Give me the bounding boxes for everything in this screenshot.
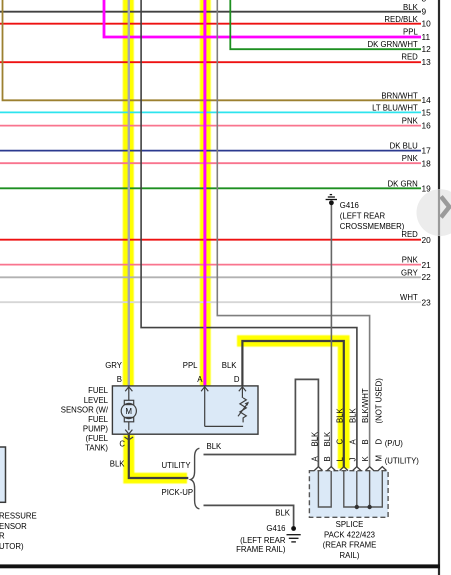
splice row2 letters rotated [335, 439, 383, 445]
highlight yellow BLK pin D path [237, 335, 350, 468]
svg-text:(FUEL: (FUEL [85, 434, 108, 443]
svg-text:PNK: PNK [402, 154, 419, 163]
label splice pack [323, 520, 377, 560]
ground G416 crossmember [326, 195, 337, 206]
label G416 frame rail [236, 524, 286, 554]
svg-text:(UTILITY): (UTILITY) [385, 457, 420, 466]
svg-text:C: C [335, 439, 344, 445]
wire 22 GRY horizontal [0, 276, 421, 278]
svg-text:BLK: BLK [310, 431, 319, 447]
wire PPL core to fuel pin A [203, 37, 206, 386]
svg-text:BLK: BLK [349, 407, 358, 423]
splice junction dots [355, 505, 359, 509]
svg-text:TANK): TANK) [85, 443, 108, 452]
wire BLK to splice J vertical from top [141, 0, 357, 467]
pressure sensor box left [0, 447, 6, 502]
svg-text:BLK: BLK [207, 442, 223, 451]
brace utility pickup [191, 448, 200, 509]
svg-text:PPL: PPL [183, 361, 198, 370]
wire BLK pin C to brace [129, 435, 189, 478]
svg-text:FRAME RAIL): FRAME RAIL) [236, 545, 286, 554]
right border [438, 0, 440, 575]
svg-text:15: 15 [422, 108, 432, 118]
svg-text:FUEL: FUEL [88, 386, 109, 395]
svg-text:RESSURE: RESSURE [0, 512, 37, 521]
wire 15 LT BLU/WHT horizontal [0, 111, 421, 113]
svg-text:D: D [234, 375, 240, 384]
right side wire numbers [422, 0, 432, 307]
wire 9 BLK horizontal [0, 11, 421, 13]
svg-text:WHT: WHT [400, 293, 418, 302]
svg-text:GRY: GRY [401, 268, 419, 277]
wire 16 PNK horizontal [0, 125, 421, 127]
wire BLK/WHT to splice K vertical from top [217, 0, 369, 467]
svg-text:8: 8 [422, 0, 427, 4]
svg-text:21: 21 [422, 260, 432, 270]
label fuel level sensor [61, 386, 109, 452]
svg-text:11: 11 [422, 32, 431, 42]
pin A internal wire [201, 387, 243, 427]
svg-text:BLK/WHT: BLK/WHT [361, 388, 370, 423]
wire 13 RED horizontal [0, 61, 421, 63]
chevron circle [417, 189, 451, 236]
svg-text:M: M [126, 407, 133, 416]
pin C arrow below box [125, 437, 134, 440]
svg-text:10: 10 [422, 19, 432, 29]
wire G416 crossmember to splice B [330, 205, 332, 467]
svg-text:SPLICE: SPLICE [336, 520, 364, 529]
fuel level sensor box [112, 386, 258, 434]
splice wire color labels rotated [310, 378, 383, 447]
svg-text:BLK: BLK [222, 361, 238, 370]
svg-text:13: 13 [422, 57, 432, 67]
splice pack box [309, 471, 388, 518]
svg-text:14: 14 [422, 95, 432, 105]
right side wire color labels [368, 3, 419, 302]
svg-text:UTOR): UTOR) [0, 542, 24, 551]
ground G416 frame rail [287, 526, 301, 542]
wire BLK pickup to ground [204, 505, 294, 527]
svg-text:PNK: PNK [402, 256, 419, 265]
svg-text:17: 17 [422, 146, 432, 156]
svg-text:UTILITY: UTILITY [162, 461, 192, 470]
svg-text:A: A [349, 439, 358, 445]
wire BLK utility to splice A [204, 379, 319, 467]
wire 21 PNK horizontal [0, 264, 421, 266]
wire 20 RED horizontal [0, 239, 421, 241]
motor M fuel pump [121, 400, 136, 434]
wire 17 DK BLU horizontal [0, 150, 421, 152]
svg-text:RED/BLK: RED/BLK [384, 15, 418, 24]
svg-text:(NOT USED): (NOT USED) [374, 378, 383, 424]
wire 19 DK GRN horizontal [0, 187, 421, 189]
svg-text:RED: RED [401, 230, 418, 239]
svg-text:16: 16 [422, 121, 432, 131]
svg-text:M: M [374, 455, 383, 462]
svg-text:FUEL: FUEL [88, 415, 109, 424]
svg-text:J: J [349, 458, 358, 462]
svg-text:BLK: BLK [275, 508, 291, 517]
svg-text:RED: RED [401, 53, 418, 62]
svg-text:BRN/WHT: BRN/WHT [381, 91, 418, 100]
svg-text:(REAR FRAME: (REAR FRAME [323, 541, 377, 550]
splice internal bus L-M [344, 471, 383, 507]
svg-text:PPL: PPL [403, 28, 418, 37]
svg-text:22: 22 [422, 272, 432, 282]
svg-text:(LEFT REAR: (LEFT REAR [240, 536, 286, 545]
svg-text:G416: G416 [266, 524, 285, 533]
svg-text:PACK 422/423: PACK 422/423 [324, 530, 375, 539]
svg-text:B: B [323, 456, 332, 461]
splice pin arrows [314, 467, 386, 471]
svg-text:A: A [310, 456, 319, 462]
svg-text:12: 12 [422, 44, 432, 54]
highlight yellow BLK pin C path [123, 435, 187, 484]
splice terminal letters rotated [310, 455, 383, 462]
svg-text:(LEFT REAR: (LEFT REAR [340, 212, 386, 221]
highlight yellow PPL wire vertical [200, 0, 211, 386]
wire 12 DK GRN/WHT vertical from top [230, 0, 421, 49]
bottom border [0, 564, 440, 568]
wire GRY core to fuel pin B [128, 0, 130, 386]
splice internal bus A-B [318, 471, 331, 507]
svg-text:BLK: BLK [323, 431, 332, 447]
svg-text:CROSSMEMBER): CROSSMEMBER) [340, 222, 405, 231]
svg-text:G416: G416 [340, 201, 359, 210]
svg-text:C: C [119, 439, 125, 448]
svg-text:A: A [197, 375, 203, 384]
svg-text:18: 18 [422, 158, 432, 168]
svg-text:ENSOR: ENSOR [0, 522, 27, 531]
svg-text:SENSOR (W/: SENSOR (W/ [61, 405, 109, 414]
svg-text:(P/U): (P/U) [385, 439, 404, 448]
svg-text:GRY: GRY [105, 361, 123, 370]
svg-text:BLK: BLK [110, 459, 126, 468]
wire 14 BRN/WHT from top-left [3, 0, 422, 100]
resistor fuel level sender [238, 387, 249, 423]
svg-text:PNK: PNK [402, 117, 419, 126]
svg-text:DK GRN/WHT: DK GRN/WHT [368, 40, 418, 49]
wire 23 WHT horizontal [0, 301, 421, 303]
svg-text:B: B [117, 375, 122, 384]
svg-text:PICK-UP: PICK-UP [162, 488, 194, 497]
svg-text:BLK: BLK [335, 407, 344, 423]
svg-text:L: L [335, 457, 344, 462]
svg-text:LT BLU/WHT: LT BLU/WHT [372, 103, 418, 112]
svg-text:DK GRN: DK GRN [387, 179, 417, 188]
wire 11 PPL vertical from top [104, 0, 421, 37]
highlight yellow GRY wire vertical [123, 0, 134, 386]
wire BLK core fuel pin D to splice L [242, 341, 343, 467]
label G416 crossmember [340, 201, 405, 231]
svg-text:20: 20 [422, 235, 432, 245]
svg-text:9: 9 [422, 7, 427, 17]
svg-text:LEVEL: LEVEL [84, 396, 109, 405]
svg-text:23: 23 [422, 297, 432, 307]
svg-text:DK BLU: DK BLU [390, 142, 419, 151]
chevron arrow [441, 197, 449, 218]
wire 10 RED/BLK horizontal [0, 23, 421, 25]
pin B arrow [125, 387, 132, 401]
svg-text:PUMP): PUMP) [83, 424, 109, 433]
svg-text:BLK: BLK [403, 3, 419, 12]
svg-text:RAIL): RAIL) [340, 551, 360, 560]
svg-text:R: R [0, 532, 5, 541]
wire 18 PNK horizontal [0, 162, 421, 164]
svg-text:K: K [361, 456, 370, 462]
svg-text:D: D [374, 439, 383, 445]
svg-text:B: B [361, 439, 370, 444]
label pressure sensor [0, 512, 37, 551]
